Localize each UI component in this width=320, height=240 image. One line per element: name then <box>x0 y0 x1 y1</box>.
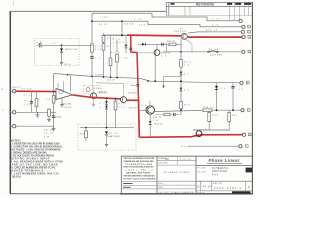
wire bias tap vertical <box>163 76 165 85</box>
terminal pin 5 <box>242 50 245 53</box>
resistor R12 <box>48 108 50 119</box>
svg-text:PL 24: PL 24 <box>203 186 212 188</box>
wire Q4 base link <box>96 82 124 85</box>
svg-text:R18: R18 <box>111 52 119 54</box>
capacitor C4 <box>52 115 55 117</box>
svg-text:SCHEMATIC,: SCHEMATIC, <box>212 167 229 170</box>
svg-text:A: A <box>248 185 250 189</box>
wire red output to connector <box>140 135 203 138</box>
notes text block <box>11 140 63 179</box>
svg-text:R32: R32 <box>184 104 190 106</box>
svg-text:Q8 D10: Q8 D10 <box>12 176 22 179</box>
svg-text:5W: 5W <box>44 136 49 138</box>
title block tolerance box text <box>124 158 157 181</box>
svg-text:R8 1K: R8 1K <box>99 24 108 26</box>
wire rail R9 drop vertical <box>91 13 93 76</box>
revision block frame <box>166 2 252 16</box>
sheet border bottom <box>10 193 120 195</box>
svg-text:150: 150 <box>119 107 125 109</box>
wire bias line y44 <box>138 43 181 45</box>
svg-text:1N4002: 1N4002 <box>154 123 163 125</box>
svg-text:DO NOT SCALE THIS DRAWING: DO NOT SCALE THIS DRAWING <box>124 178 157 181</box>
wire red input line <box>16 90 56 92</box>
wire red output riser vertical <box>138 100 141 138</box>
svg-text:5W: 5W <box>153 120 158 122</box>
svg-text:(HEAT SINK): (HEAT SINK) <box>108 135 120 138</box>
svg-text:MATERIAL AND FINISH: MATERIAL AND FINISH <box>126 172 151 175</box>
wire ground return to pin 9 dashed lead <box>181 145 188 147</box>
dashed box thermal bias <box>78 124 136 150</box>
wire red Q2 to Q4 <box>91 97 121 99</box>
sheet cell dark blob <box>232 191 251 193</box>
svg-text:R19: R19 <box>119 104 125 106</box>
fold notch top-left margin <box>13 1 15 6</box>
revision block column lines <box>185 2 249 20</box>
junction fuse line / bias column <box>180 51 182 53</box>
resistor R5 1K <box>52 96 55 103</box>
resistor R19 <box>115 99 117 128</box>
wire Q5 emitter to rail <box>154 55 156 81</box>
svg-text:D10: D10 <box>219 88 225 90</box>
svg-text:R23: R23 <box>80 134 84 136</box>
svg-text:PC BD: PC BD <box>198 168 207 170</box>
diode D4 <box>105 101 108 104</box>
wire jack J1 stem <box>11 90 13 92</box>
junction VAS node <box>121 34 123 36</box>
title block left lower lines <box>121 181 157 183</box>
title block top line <box>121 155 252 157</box>
title block application marks <box>123 183 133 185</box>
svg-text:R50 10: R50 10 <box>206 29 218 31</box>
svg-text:R35 .33: R35 .33 <box>153 117 161 119</box>
title block middle rows <box>157 156 196 189</box>
transistor Q2 <box>91 93 97 99</box>
svg-text:TOLERANCES ARE: TOLERANCES ARE <box>125 163 153 166</box>
wire jack J1B stem <box>11 125 13 127</box>
wire red Q7 to pin 4 <box>187 36 242 38</box>
revision block header blobs <box>227 3 232 5</box>
svg-text:RELEASE STAMP: RELEASE STAMP <box>164 171 191 174</box>
svg-text:R41: R41 <box>232 115 237 117</box>
svg-text:UNLESS OTHERWISE SPECIFIED: UNLESS OTHERWISE SPECIFIED <box>124 158 156 160</box>
wire triangle supply tick 1 <box>57 83 59 89</box>
terminal pin 9 board square <box>245 145 248 148</box>
wire VAS collector feed vertical <box>121 21 123 35</box>
wire rail B <box>92 21 242 27</box>
wire inverting input tick <box>54 97 57 99</box>
sheet border left <box>9 11 11 194</box>
wire C3 lead <box>36 44 39 46</box>
svg-text:FRACTIONS DECIMALS ANGLES: FRACTIONS DECIMALS ANGLES <box>124 166 155 169</box>
svg-text:DIMENSIONS ARE IN INCHES AND: DIMENSIONS ARE IN INCHES AND <box>124 160 155 163</box>
terminal pin 6 <box>240 81 243 84</box>
junction feedback rail R13 <box>67 74 69 76</box>
svg-text:SCALE: SCALE <box>197 191 205 194</box>
number row dividers <box>200 181 202 191</box>
diode TH thermal <box>105 131 108 134</box>
svg-text:+78V: +78V <box>100 17 109 19</box>
svg-text:C10 100: C10 100 <box>124 24 133 26</box>
terminal pin 2 board square <box>248 25 251 28</box>
svg-text:C1 .5: C1 .5 <box>24 95 31 97</box>
junction emitter line <box>180 109 182 111</box>
wire red connector to pin 14 <box>202 134 242 136</box>
svg-text:Q2 SEL: Q2 SEL <box>93 88 101 90</box>
terminal pin 14 board square <box>248 133 251 136</box>
svg-text:R38 1.0: R38 1.0 <box>204 107 215 109</box>
junction zener tap <box>61 44 63 46</box>
svg-text:CHECKED: CHECKED <box>158 162 169 164</box>
wire triangle supply tick 2 <box>63 81 65 91</box>
svg-text:PL-400: PL-400 <box>198 172 206 174</box>
junction D10 line <box>216 109 218 111</box>
svg-text:2SC1628: 2SC1628 <box>128 92 137 94</box>
diode D6 <box>142 43 145 46</box>
junction diode string tap <box>106 97 108 99</box>
capacitor C12 zobel <box>232 83 234 110</box>
wire Q7 emitter to fuse <box>186 40 192 52</box>
input ground jack J1A <box>13 111 16 114</box>
transistor Q4 driver <box>121 97 127 103</box>
wire input ground line <box>16 111 56 113</box>
terminal pin 4 red <box>242 36 245 39</box>
diode D7 <box>180 72 183 75</box>
diode D3 <box>125 35 127 44</box>
svg-text:DWG NO: DWG NO <box>213 183 223 185</box>
wire zener node to R9 rail <box>41 44 92 46</box>
svg-text:C4 100: C4 100 <box>55 117 61 119</box>
resistor R9 <box>91 44 94 52</box>
svg-text:R4 10: R4 10 <box>65 64 71 66</box>
diode D8 <box>149 114 151 137</box>
svg-text:C11 2P: C11 2P <box>107 80 116 82</box>
svg-text:250V BUS: 250V BUS <box>210 55 223 57</box>
junction rail B / R9 feed <box>91 20 93 22</box>
capacitor C8 plates <box>161 43 163 46</box>
svg-text:INPUT: INPUT <box>12 87 22 89</box>
line under logo cell <box>196 164 252 166</box>
diode D10 catch <box>216 83 218 110</box>
svg-text:R30: R30 <box>184 61 191 63</box>
wire bias column x181 <box>180 39 182 115</box>
terminal pin 9 <box>239 145 242 148</box>
wire VAS collector horizontal <box>104 34 128 36</box>
capacitor C5 <box>90 56 94 58</box>
junction bias box left <box>85 127 87 129</box>
resistor R28 <box>169 43 176 46</box>
wire diode string vertical <box>106 98 108 127</box>
title block middle divider <box>156 156 158 194</box>
ground feedback leg <box>53 126 55 128</box>
connector ring output jack <box>196 131 202 137</box>
ground input shield <box>37 112 39 115</box>
resistor R16 column <box>110 36 112 77</box>
wire bias feed to fuse line <box>165 43 167 52</box>
resistor R18 column <box>116 40 118 78</box>
terminal pin 6 board square <box>246 81 249 84</box>
svg-text:+-1/16 +-.005 +-1: +-1/16 +-.005 +-1 <box>125 170 153 172</box>
terminal pin 5 board square <box>248 50 251 53</box>
resistor R41 <box>228 110 230 130</box>
fuse F1 <box>208 51 210 53</box>
capacitor C7 compensation plates <box>136 84 139 86</box>
resistor R14 <box>103 33 105 77</box>
wire bias box bus <box>80 127 134 129</box>
svg-text:R22 330: R22 330 <box>44 130 54 132</box>
wire red op-amp output <box>73 95 91 97</box>
arrow -78V <box>162 86 164 89</box>
junction red input / feedback leg <box>53 91 55 93</box>
capacitor C6 inside box <box>86 88 90 92</box>
wire jack J1A stem <box>11 111 13 113</box>
svg-text:R1 50K: R1 50K <box>22 89 33 91</box>
wire Q2 emitter <box>93 99 95 104</box>
dashed box C6 select <box>84 85 102 93</box>
resistor R2 input shunt <box>31 91 33 112</box>
terminal pin 3 <box>241 30 244 33</box>
wire Q5 collector up <box>156 44 158 49</box>
capacitor C7A plates <box>129 47 132 49</box>
title block left edge <box>120 156 122 194</box>
svg-text:2-4-75: 2-4-75 <box>180 159 192 161</box>
junction bias box mid <box>106 127 108 129</box>
wire fuse line to pin 5 <box>163 51 242 53</box>
svg-text:REVISIONS: REVISIONS <box>196 2 214 6</box>
wire feedback leg <box>53 74 55 127</box>
svg-text:ENG: ENG <box>158 183 164 185</box>
svg-text:AMPLIFIER: AMPLIFIER <box>212 170 227 173</box>
ground thermal <box>105 144 108 146</box>
resistor R38 <box>203 109 212 112</box>
svg-text:c: c <box>193 191 194 193</box>
resistor R32 <box>180 102 183 109</box>
capacitor C2 input shunt <box>36 91 38 112</box>
stamp block dark <box>246 168 252 173</box>
wire feedback rail to pin 6 <box>54 74 240 83</box>
wire Q6 base <box>139 109 148 111</box>
wire ground return to pin 9 <box>188 145 239 147</box>
junction C12 line <box>232 109 234 111</box>
op-amp input stage triangle <box>56 89 73 100</box>
svg-text:TLP: TLP <box>165 158 170 161</box>
svg-text:R28 220: R28 220 <box>167 41 175 43</box>
capacitor C3 plates <box>38 43 40 47</box>
svg-text:2SD555: 2SD555 <box>129 108 138 110</box>
dashed box zener supply <box>35 38 80 65</box>
logo underline <box>207 163 242 165</box>
svg-text:C6 150P: C6 150P <box>95 75 104 77</box>
wire red Q4 down to output riser <box>126 99 138 101</box>
terminal pin 2 <box>242 25 245 28</box>
ground zener <box>60 61 63 63</box>
svg-text:Phase Linear: Phase Linear <box>209 158 240 163</box>
svg-text:TH1 6.8: TH1 6.8 <box>108 133 118 135</box>
svg-text:2SC1628: 2SC1628 <box>161 53 170 55</box>
diode D5 <box>105 106 108 109</box>
svg-text:R16: R16 <box>113 39 120 41</box>
svg-text:R17 1K: R17 1K <box>99 92 108 94</box>
wire to pin 3 <box>188 32 241 33</box>
transistor Q5 2SC1628 <box>154 50 160 56</box>
svg-text:C9 .05: C9 .05 <box>44 133 53 135</box>
svg-text:1K: 1K <box>184 65 190 67</box>
junction bias rail <box>180 80 182 82</box>
svg-text:DO NOT SCALE DRAWING: DO NOT SCALE DRAWING <box>160 191 194 194</box>
svg-text:1K: 1K <box>113 42 119 44</box>
line above number row <box>196 180 252 182</box>
wire +78V rail A <box>92 13 239 21</box>
transistor Q6 lower driver <box>146 106 154 114</box>
terminal pin 7 <box>241 109 244 112</box>
resistor R15 <box>102 44 105 51</box>
ground under triangle <box>61 98 63 105</box>
wire red collector rail to Q7 <box>127 34 182 37</box>
wire resistor bottoms <box>193 129 230 131</box>
wire feedback node vertical <box>70 75 72 92</box>
svg-text:MFG: MFG <box>158 187 164 189</box>
resistor R23 bias trim <box>85 128 87 142</box>
wire bias tap horizontal <box>164 75 182 77</box>
svg-text:14: 14 <box>249 134 251 136</box>
terminal pin 14 red <box>242 133 245 136</box>
svg-text:2SD555: 2SD555 <box>174 31 187 33</box>
terminal pin 4 board square <box>248 36 251 39</box>
resistor R30 <box>180 60 183 68</box>
svg-text:Q3 Q4: Q3 Q4 <box>64 107 71 109</box>
svg-text:R39: R39 <box>213 115 218 117</box>
svg-text:C12: C12 <box>236 86 243 88</box>
diode D9 <box>180 88 183 91</box>
zener diode D1 <box>61 45 63 48</box>
terminal pin 7 board square <box>247 109 250 112</box>
resistor R39 <box>208 110 210 130</box>
wire emitter line y110 <box>154 110 203 111</box>
svg-text:1N5240 10V: 1N5240 10V <box>65 49 79 51</box>
wire chassis line <box>16 125 54 127</box>
ground R12 <box>48 118 50 121</box>
wire R38 to pin 7 <box>212 109 241 111</box>
svg-text:400: 400 <box>212 175 219 177</box>
wire red VAS riser vertical <box>131 35 139 100</box>
input jack J1 <box>13 90 16 93</box>
chassis jack J1B <box>13 125 16 128</box>
transistor Q7 2SD555 <box>181 33 187 39</box>
junction R19 tap <box>115 98 117 100</box>
svg-text:PER ENGINEERING STANDARDS: PER ENGINEERING STANDARDS <box>124 174 156 177</box>
sheet border right <box>251 2 253 194</box>
wire emitter resistor row <box>156 114 182 116</box>
sheet border top <box>10 10 166 12</box>
terminal pin 3 board square <box>248 30 251 33</box>
title block right divider <box>195 156 197 194</box>
junction Q5 emitter rail <box>154 80 156 82</box>
terminal pin 1 <box>239 19 242 22</box>
svg-text:F1 5A: F1 5A <box>209 48 219 51</box>
